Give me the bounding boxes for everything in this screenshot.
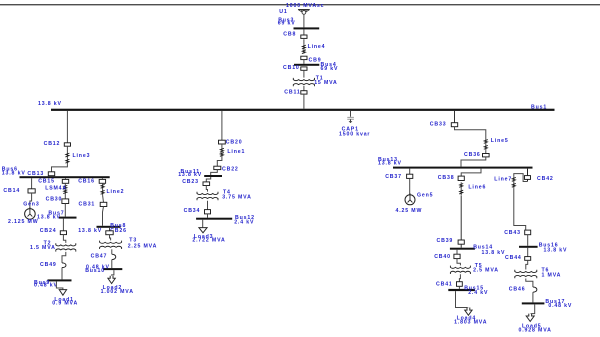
- wire CB49 to Bus9: [61, 268, 63, 280]
- wire CB47 to Bus10: [111, 260, 113, 269]
- wire CB43 to Bus16: [527, 235, 529, 246]
- wire CB34 to Bus12: [207, 214, 209, 218]
- wire CB12 to Line3: [66, 146, 68, 152]
- transformer T5: [450, 266, 470, 269]
- svg-text:CB8: CB8: [283, 32, 296, 38]
- breaker CB23: [203, 182, 210, 186]
- svg-text:13.8 kV: 13.8 kV: [2, 171, 26, 177]
- breaker CB11: [301, 91, 307, 94]
- svg-text:LSM4A: LSM4A: [45, 185, 67, 191]
- breaker CB39: [458, 240, 464, 244]
- svg-text:CB41: CB41: [436, 281, 453, 287]
- wire Bus13 to CB38: [461, 169, 481, 177]
- line Line1: [221, 144, 223, 148]
- svg-text:CB37: CB37: [385, 174, 402, 180]
- wire Bus16 to CB44: [527, 248, 529, 257]
- svg-text:CB22: CB22: [222, 166, 239, 172]
- bus Bus10: [103, 268, 122, 270]
- wire Bus13 to CB37: [409, 169, 411, 175]
- bus Bus12: [196, 218, 232, 220]
- svg-text:69 kV: 69 kV: [321, 66, 339, 72]
- wire CB41 to Bus15: [458, 286, 460, 289]
- bus Bus8: [97, 226, 121, 228]
- wire Bus6 to CB14: [31, 178, 33, 189]
- wire Bus6 to CB15: [65, 178, 67, 179]
- svg-text:CB30: CB30: [46, 196, 63, 202]
- wire Bus9 to Load1: [56, 281, 63, 289]
- svg-text:CB43: CB43: [504, 230, 521, 236]
- svg-text:Line5: Line5: [491, 138, 509, 144]
- svg-text:CB11: CB11: [284, 90, 300, 96]
- svg-text:13.8 kV: 13.8 kV: [378, 161, 402, 167]
- svg-text:Bus1: Bus1: [531, 105, 547, 111]
- svg-text:CB14: CB14: [3, 188, 20, 194]
- wire CB30 to Bus7: [64, 204, 66, 217]
- svg-text:0.48 kV: 0.48 kV: [548, 303, 572, 309]
- svg-text:Line6: Line6: [468, 184, 486, 190]
- breaker CB30: [62, 199, 69, 204]
- svg-text:0.9 MVA: 0.9 MVA: [52, 301, 78, 307]
- svg-text:Gen5: Gen5: [417, 193, 433, 199]
- breaker CB10: [301, 67, 307, 70]
- wire Bus1 to CB33: [454, 111, 456, 123]
- fuse CB46: [533, 287, 537, 292]
- bus Bus16: [519, 246, 538, 248]
- bus Bus1 13.8 kV main: [51, 109, 555, 111]
- svg-text:CB40: CB40: [434, 254, 451, 260]
- svg-text:CB13: CB13: [27, 171, 44, 177]
- wire CB26 to T3: [110, 235, 111, 241]
- svg-text:CB31: CB31: [79, 202, 96, 208]
- wire T4 to CB34: [207, 201, 209, 210]
- wire Bus1 to CB12: [66, 111, 68, 143]
- wire Bus1 to CAP1: [350, 111, 352, 117]
- line Line2: [102, 183, 104, 195]
- wire Bus10 to Load2: [112, 270, 114, 276]
- generator Gen5: [405, 195, 415, 205]
- svg-text:69 kV: 69 kV: [278, 21, 296, 27]
- bus Bus13: [393, 167, 533, 169]
- breaker CB44: [525, 257, 531, 261]
- svg-text:Gen3: Gen3: [23, 202, 39, 208]
- wire CB44 to T6: [526, 260, 528, 269]
- bus Bus15: [448, 289, 475, 291]
- breaker CB41: [457, 282, 463, 287]
- svg-text:1.002 MVA: 1.002 MVA: [101, 289, 134, 295]
- wire Bus7 to CB24: [62, 219, 64, 231]
- svg-text:CB23: CB23: [182, 179, 199, 185]
- svg-text:15 MVA: 15 MVA: [314, 80, 337, 86]
- svg-text:Line2: Line2: [107, 189, 125, 195]
- svg-text:CB16: CB16: [78, 179, 95, 185]
- wire Bus6 to CB16: [101, 178, 103, 179]
- transformer T2: [56, 243, 76, 246]
- wire Bus8 to CB26: [109, 228, 111, 231]
- breaker CB38: [458, 176, 464, 180]
- svg-text:CB46: CB46: [509, 287, 526, 293]
- svg-text:2.722 MVA: 2.722 MVA: [192, 238, 225, 244]
- wire T3 to CB47: [111, 249, 113, 254]
- wire T6 to CB46: [526, 279, 533, 288]
- bus Bus4: [294, 64, 319, 66]
- svg-text:13.8 kV: 13.8 kV: [78, 228, 102, 234]
- transformer T4: [197, 192, 218, 195]
- breaker CB40: [454, 254, 460, 258]
- breaker CB36: [483, 154, 490, 157]
- wire CB40 to T5: [457, 259, 460, 266]
- svg-text:2.4 kV: 2.4 kV: [234, 219, 254, 225]
- breaker CB33: [451, 123, 457, 127]
- svg-text:4.25 MW: 4.25 MW: [396, 208, 423, 214]
- svg-text:Line7: Line7: [494, 176, 512, 182]
- svg-text:13.8 kV: 13.8 kV: [37, 215, 61, 221]
- fuse CB47: [112, 254, 116, 259]
- wire Bus13 to CB42: [527, 169, 529, 182]
- wire CB33 to Line5: [455, 127, 486, 139]
- svg-text:13.8 kV: 13.8 kV: [38, 101, 62, 107]
- bus Bus6: [20, 176, 110, 178]
- page top border: [0, 4, 600, 5]
- svg-text:13.8 kV: 13.8 kV: [544, 248, 568, 254]
- svg-text:13.8 kV: 13.8 kV: [482, 250, 506, 256]
- wire Bus15 to Load4: [456, 291, 469, 307]
- line Line4: [303, 39, 305, 44]
- wire Line7 to CB43: [514, 188, 526, 230]
- breaker CB9: [301, 56, 307, 59]
- svg-text:1 MVA: 1 MVA: [542, 273, 562, 279]
- wire CB31 to Bus8: [103, 207, 104, 226]
- breaker CB43: [525, 230, 531, 235]
- line Line3: [66, 152, 68, 164]
- wire Line3 to CB13: [52, 164, 68, 171]
- svg-text:CB34: CB34: [184, 208, 201, 214]
- wire Bus12 to Load3: [202, 220, 204, 228]
- load Load5 arrow: [526, 314, 534, 322]
- wire Bus1 to CB20: [221, 111, 223, 140]
- svg-text:CB49: CB49: [40, 262, 57, 268]
- wire CB37 to Gen5: [409, 178, 411, 194]
- wire CB23 to T4: [206, 186, 207, 192]
- transformer T3: [100, 241, 122, 244]
- breaker CB26: [106, 231, 113, 235]
- load Load2 arrow: [108, 276, 115, 284]
- svg-text:2.4 kV: 2.4 kV: [468, 290, 488, 296]
- breaker CB34: [205, 210, 211, 214]
- svg-text:3.75 MVA: 3.75 MVA: [222, 195, 251, 201]
- breaker CB37: [407, 174, 413, 178]
- wire Line1 to CB22: [217, 156, 222, 166]
- svg-text:CB20: CB20: [226, 139, 243, 145]
- breaker CB14: [28, 189, 35, 193]
- svg-text:13.8 kV: 13.8 kV: [178, 172, 202, 178]
- wire T1 to CB11: [303, 86, 305, 91]
- transformer T6: [515, 270, 537, 273]
- wire CB24 to T2: [63, 235, 65, 243]
- svg-text:2.25 MVA: 2.25 MVA: [128, 243, 157, 249]
- generator Gen3: [25, 209, 36, 220]
- svg-text:CB38: CB38: [438, 175, 455, 181]
- line Line5: [485, 139, 487, 151]
- bus Bus11: [204, 175, 222, 177]
- svg-text:CB24: CB24: [40, 228, 57, 234]
- load Load4 arrow: [465, 308, 472, 316]
- svg-text:CB47: CB47: [91, 253, 108, 259]
- bus Bus3: [294, 27, 320, 29]
- wire CB42 hook to Line7: [514, 174, 528, 182]
- wire U1 to Bus3: [303, 14, 305, 27]
- wire Line5 to CB36: [485, 150, 487, 153]
- svg-text:1000 MVAsc: 1000 MVAsc: [286, 3, 324, 9]
- svg-text:1500 kvar: 1500 kvar: [339, 131, 370, 137]
- breaker CB20: [219, 140, 226, 144]
- svg-text:CB9: CB9: [309, 58, 322, 64]
- wire CB14 to Gen3: [30, 193, 32, 209]
- wire Bus17 to Load5: [530, 304, 535, 313]
- bus Bus7: [59, 217, 77, 219]
- breaker CB16: [99, 179, 105, 183]
- utility U1: [298, 10, 310, 14]
- svg-text:Line1: Line1: [227, 149, 245, 155]
- bus Bus9: [48, 279, 72, 281]
- svg-text:0.928 MVA: 0.928 MVA: [519, 328, 552, 334]
- svg-text:CB12: CB12: [44, 141, 61, 147]
- svg-text:CB15: CB15: [38, 179, 55, 185]
- svg-text:1.5 MVA: 1.5 MVA: [30, 245, 56, 251]
- wire CB46 to Bus17: [532, 292, 534, 302]
- wire CB9 to Bus4: [303, 59, 305, 63]
- line LSM4A: [64, 183, 66, 184]
- breaker CB13: [48, 172, 54, 176]
- svg-text:CB39: CB39: [437, 238, 454, 244]
- svg-text:Line3: Line3: [73, 153, 91, 159]
- svg-text:CB10: CB10: [283, 65, 300, 71]
- wire Line6 to CB39: [460, 196, 462, 240]
- wire Bus3 to CB8: [303, 29, 305, 35]
- wire CB39 to Bus14: [460, 244, 462, 248]
- svg-text:0.48 kV: 0.48 kV: [34, 283, 58, 289]
- wire CB36 to Bus13: [461, 157, 486, 167]
- svg-text:1.803 MVA: 1.803 MVA: [454, 320, 487, 326]
- line Line7: [513, 176, 515, 188]
- wire Bus14 to CB40: [456, 250, 458, 255]
- bus Bus17: [522, 302, 545, 304]
- fuse CB49: [62, 263, 66, 268]
- svg-text:CB42: CB42: [537, 176, 554, 182]
- wire to CB30: [64, 193, 66, 199]
- breaker CB8: [301, 35, 307, 38]
- line Line6: [460, 182, 462, 195]
- breaker CB31: [100, 202, 107, 206]
- load Load1 triangle: [59, 290, 66, 296]
- svg-text:2.125 MW: 2.125 MW: [8, 219, 38, 225]
- breaker CB22: [214, 166, 221, 169]
- wire CB11 to Bus1: [303, 94, 305, 109]
- breaker CB15: [62, 179, 68, 183]
- wire T2 to CB49: [62, 252, 66, 263]
- svg-text:U1: U1: [279, 9, 287, 15]
- load Load3 triangle: [199, 228, 207, 233]
- breaker CB42: [525, 176, 531, 180]
- svg-text:CB33: CB33: [430, 121, 447, 127]
- wire Line2 to CB31: [102, 195, 105, 202]
- bus Bus14: [450, 248, 475, 250]
- svg-text:CB44: CB44: [505, 255, 522, 261]
- breaker CB12: [64, 143, 70, 146]
- wire CB22 to Bus11: [211, 170, 218, 175]
- breaker CB24: [60, 231, 66, 235]
- svg-text:Bus10: Bus10: [85, 268, 105, 274]
- wire T5 to CB41: [459, 274, 460, 281]
- wire CB10 to T1: [303, 70, 305, 77]
- svg-text:2.5 MVA: 2.5 MVA: [473, 268, 499, 274]
- capacitor CAP1: [347, 117, 354, 119]
- svg-text:CB36: CB36: [464, 152, 481, 158]
- transformer T1: [293, 78, 314, 81]
- svg-text:Line4: Line4: [308, 44, 326, 50]
- wire Bus11 to CB23: [206, 177, 210, 182]
